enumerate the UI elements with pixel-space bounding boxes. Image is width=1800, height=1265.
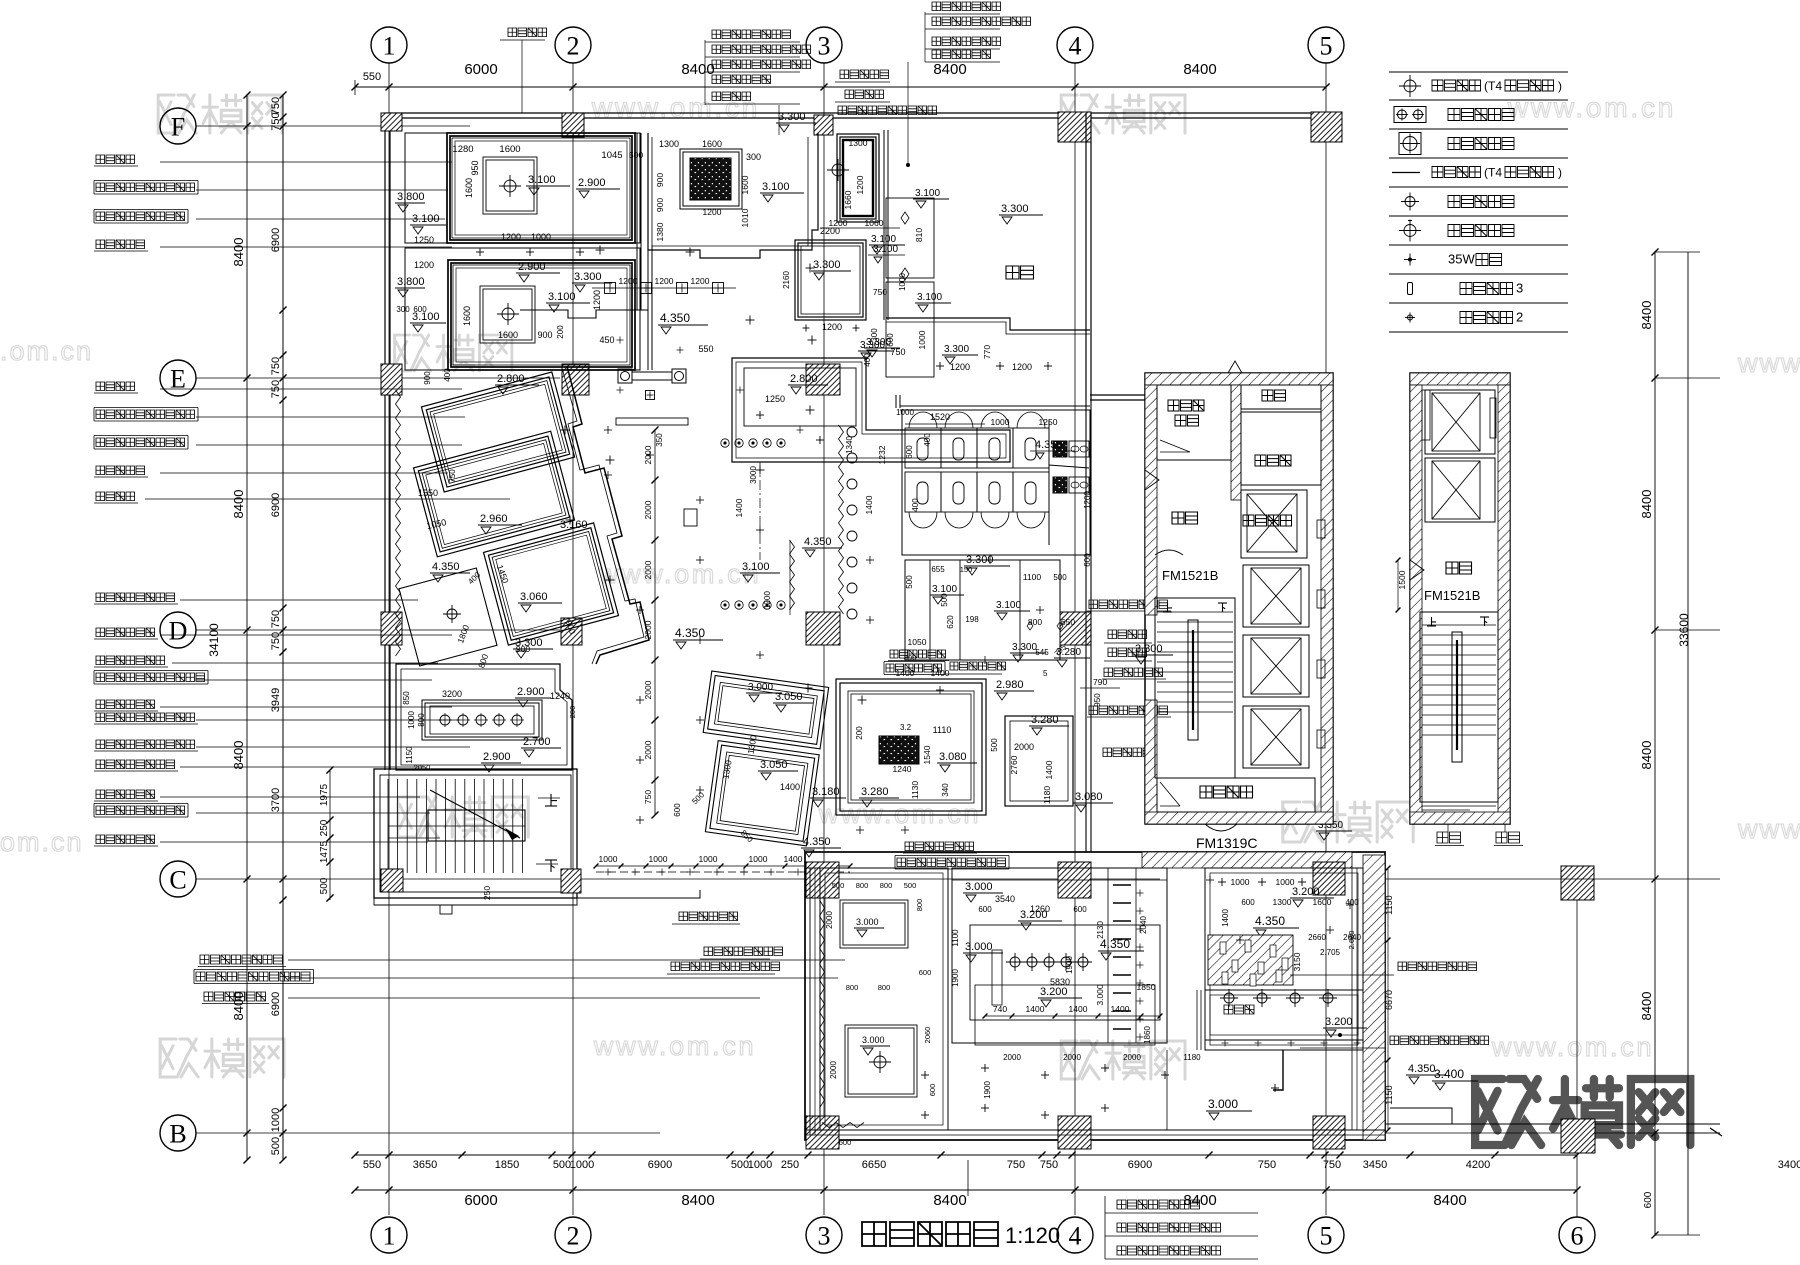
svg-text:600: 600: [905, 445, 914, 459]
svg-text:6000: 6000: [464, 61, 497, 78]
svg-text:1400: 1400: [1221, 909, 1230, 927]
svg-text:770: 770: [982, 345, 992, 359]
svg-text:3.160: 3.160: [560, 519, 588, 531]
svg-text:6: 6: [1571, 1221, 1584, 1250]
svg-text:150: 150: [960, 565, 973, 574]
svg-text:2000: 2000: [1123, 1053, 1141, 1062]
svg-text:200: 200: [855, 726, 864, 740]
svg-text:400: 400: [443, 368, 452, 382]
svg-text:3.000: 3.000: [965, 941, 993, 953]
svg-text:8400: 8400: [933, 1192, 966, 1209]
svg-text:1:120: 1:120: [1005, 1223, 1060, 1248]
svg-text:1400: 1400: [784, 854, 803, 864]
svg-text:4.350: 4.350: [1255, 914, 1285, 928]
svg-text:2.900: 2.900: [483, 751, 511, 763]
svg-text:1200: 1200: [703, 207, 722, 217]
svg-text:3.000: 3.000: [965, 881, 993, 893]
svg-text:790: 790: [1093, 677, 1107, 687]
svg-text:1900: 1900: [983, 1081, 992, 1099]
svg-text:2760: 2760: [1009, 755, 1019, 774]
svg-text:650: 650: [1061, 617, 1075, 627]
svg-text:2.700: 2.700: [523, 736, 551, 748]
svg-text:800: 800: [878, 983, 891, 992]
svg-text:FM1521B: FM1521B: [1424, 588, 1480, 603]
svg-text:www.om.cn: www.om.cn: [818, 799, 981, 829]
svg-text:550: 550: [363, 71, 381, 83]
svg-text:2: 2: [567, 1221, 580, 1250]
svg-text:3200: 3200: [442, 689, 462, 699]
svg-text:500: 500: [1053, 573, 1067, 582]
svg-text:750: 750: [1258, 1159, 1276, 1171]
svg-text:3.100: 3.100: [548, 291, 576, 303]
svg-text:350: 350: [655, 433, 664, 447]
svg-text:1860: 1860: [1143, 1026, 1152, 1044]
svg-text:1400: 1400: [1069, 1004, 1088, 1014]
svg-text:1100: 1100: [951, 929, 960, 947]
svg-text:8400: 8400: [1639, 992, 1654, 1021]
svg-text:1400: 1400: [1026, 1004, 1045, 1014]
svg-text:900: 900: [423, 371, 432, 385]
svg-text:1200: 1200: [1012, 362, 1032, 372]
svg-text:1000: 1000: [1231, 877, 1250, 887]
svg-text:(T4: (T4: [1484, 79, 1502, 93]
svg-text:600: 600: [928, 1084, 937, 1097]
svg-text:8400: 8400: [1433, 1192, 1466, 1209]
svg-text:3.280: 3.280: [861, 786, 889, 798]
svg-text:1340: 1340: [845, 436, 854, 454]
svg-text:2000: 2000: [829, 1061, 838, 1079]
svg-text:8400: 8400: [231, 238, 246, 267]
svg-text:750: 750: [1007, 1159, 1025, 1171]
svg-text:3.080: 3.080: [1075, 791, 1103, 803]
svg-text:1130: 1130: [910, 781, 920, 800]
svg-text:3.100: 3.100: [762, 181, 790, 193]
svg-text:1400: 1400: [1044, 760, 1054, 779]
svg-text:8400: 8400: [231, 992, 246, 1021]
svg-text:2000: 2000: [643, 500, 653, 519]
svg-text:2.960: 2.960: [480, 513, 508, 525]
svg-text:4.350: 4.350: [660, 311, 690, 325]
svg-text:3.060: 3.060: [520, 591, 548, 603]
svg-text:850: 850: [402, 691, 411, 705]
svg-text:1200: 1200: [655, 276, 674, 286]
svg-text:3.000: 3.000: [856, 917, 879, 927]
svg-text:810: 810: [914, 228, 924, 242]
svg-text:6000: 6000: [464, 1192, 497, 1209]
svg-text:500: 500: [553, 1159, 571, 1171]
svg-text:1400: 1400: [931, 668, 950, 678]
svg-text:750: 750: [643, 790, 653, 804]
svg-text:6900: 6900: [270, 992, 282, 1016]
svg-text:600: 600: [919, 968, 932, 977]
svg-text:1000: 1000: [699, 854, 718, 864]
svg-text:1150: 1150: [405, 746, 414, 764]
svg-text:400: 400: [923, 433, 932, 447]
svg-text:950: 950: [470, 160, 480, 175]
svg-text:750: 750: [270, 610, 282, 628]
svg-text:1200: 1200: [950, 362, 970, 372]
svg-text:1550: 1550: [418, 488, 438, 498]
svg-text:1500: 1500: [1397, 570, 1407, 589]
svg-text:200: 200: [568, 706, 577, 719]
svg-text:500: 500: [990, 738, 999, 752]
svg-text:1000: 1000: [896, 408, 914, 417]
svg-text:3.300: 3.300: [515, 637, 543, 649]
svg-text:F: F: [171, 112, 185, 141]
svg-text:4.350: 4.350: [432, 561, 460, 573]
svg-text:3.300: 3.300: [1001, 203, 1029, 215]
svg-text:1200: 1200: [763, 591, 772, 609]
svg-text:3.300: 3.300: [778, 111, 806, 123]
svg-text:2000: 2000: [643, 680, 653, 699]
svg-text:om.cn: om.cn: [0, 827, 84, 857]
svg-text:3.050: 3.050: [760, 759, 788, 771]
svg-text:(T4: (T4: [1484, 166, 1502, 180]
svg-text:3.080: 3.080: [939, 751, 967, 763]
svg-text:3.300: 3.300: [1135, 643, 1163, 655]
svg-text:3.200: 3.200: [1040, 986, 1068, 998]
svg-text:2000: 2000: [1063, 1053, 1081, 1062]
svg-text:1240: 1240: [893, 764, 912, 774]
svg-text:6900: 6900: [648, 1159, 672, 1171]
svg-text:6650: 6650: [862, 1159, 886, 1171]
svg-text:3.100: 3.100: [915, 188, 940, 199]
svg-text:750: 750: [1323, 1159, 1341, 1171]
svg-text:3: 3: [818, 1221, 831, 1250]
svg-text:500: 500: [905, 575, 914, 589]
svg-text:2.900: 2.900: [578, 177, 606, 189]
svg-text:1200: 1200: [855, 175, 865, 194]
svg-text:3.200: 3.200: [1325, 1016, 1353, 1028]
svg-text:1060: 1060: [865, 218, 884, 228]
svg-text:5: 5: [1043, 669, 1048, 678]
svg-text:1850: 1850: [495, 1159, 519, 1171]
svg-text:2: 2: [1516, 310, 1523, 325]
svg-text:4.350: 4.350: [1035, 439, 1063, 451]
svg-text:B: B: [169, 1119, 186, 1148]
svg-text:1000: 1000: [991, 417, 1010, 427]
svg-text:1600: 1600: [702, 139, 722, 149]
svg-text:198: 198: [965, 615, 979, 624]
svg-text:1300: 1300: [1273, 897, 1292, 907]
svg-text:3.180: 3.180: [812, 786, 840, 798]
svg-text:1380: 1380: [655, 222, 665, 241]
svg-text:C: C: [169, 865, 186, 894]
svg-text:2.900: 2.900: [517, 686, 545, 698]
svg-text:5: 5: [1320, 1221, 1333, 1250]
svg-text:950: 950: [1093, 693, 1102, 707]
svg-text:1200: 1200: [592, 290, 602, 310]
svg-text:1045: 1045: [601, 150, 622, 161]
svg-text:400: 400: [911, 498, 920, 512]
svg-text:2000: 2000: [1014, 742, 1034, 752]
svg-text:1540: 1540: [922, 745, 932, 764]
svg-text:1250: 1250: [414, 235, 434, 245]
svg-text:2200: 2200: [820, 226, 840, 236]
svg-text:750: 750: [270, 632, 282, 650]
svg-text:8400: 8400: [231, 490, 246, 519]
svg-text:4200: 4200: [1466, 1159, 1490, 1171]
svg-text:500: 500: [319, 877, 330, 894]
svg-text:3.100: 3.100: [528, 174, 556, 186]
svg-text:1400: 1400: [1111, 1004, 1130, 1014]
svg-text:1050: 1050: [908, 637, 927, 647]
svg-text:1975: 1975: [319, 783, 330, 806]
svg-text:750: 750: [1040, 1159, 1058, 1171]
svg-text:3.300: 3.300: [944, 344, 969, 355]
svg-text:2160: 2160: [782, 271, 791, 289]
svg-text:750: 750: [890, 347, 905, 357]
svg-text:2050: 2050: [414, 763, 431, 772]
svg-text:3.400: 3.400: [1434, 1067, 1464, 1081]
svg-text:2000: 2000: [1003, 1053, 1021, 1062]
svg-text:5: 5: [1320, 31, 1333, 60]
svg-text:800: 800: [856, 881, 869, 890]
svg-text:600: 600: [413, 305, 427, 314]
svg-text:3.300: 3.300: [1012, 642, 1037, 653]
svg-text:2.680: 2.680: [1347, 931, 1356, 950]
svg-text:3.100: 3.100: [742, 561, 770, 573]
svg-text:4.350: 4.350: [1408, 1063, 1436, 1075]
svg-text:250: 250: [781, 1159, 799, 1171]
svg-text:1110: 1110: [933, 725, 952, 735]
svg-text:1180: 1180: [1183, 1053, 1201, 1062]
svg-text:2130: 2130: [1096, 921, 1105, 939]
svg-text:250: 250: [482, 886, 492, 900]
svg-text:www.om.cn: www.om.cn: [593, 1031, 756, 1061]
svg-text:4: 4: [1069, 31, 1082, 60]
svg-text:FM1521B: FM1521B: [1162, 568, 1218, 583]
svg-text:4.350: 4.350: [675, 626, 705, 640]
svg-text:1850: 1850: [1137, 982, 1156, 992]
svg-text:3.800: 3.800: [397, 191, 425, 203]
svg-text:200: 200: [556, 325, 565, 339]
svg-text:6900: 6900: [270, 493, 282, 517]
svg-text:www.: www.: [1737, 814, 1800, 844]
svg-text:1900: 1900: [1065, 956, 1074, 974]
svg-text:3150: 3150: [1292, 952, 1302, 971]
svg-text:3.000: 3.000: [862, 1035, 885, 1045]
svg-text:1100: 1100: [1023, 572, 1042, 582]
svg-text:1000: 1000: [570, 1159, 594, 1171]
svg-text:1010: 1010: [740, 208, 750, 227]
svg-text:300: 300: [396, 305, 410, 314]
svg-text:1200: 1200: [619, 276, 638, 286]
svg-text:1000: 1000: [531, 232, 551, 242]
svg-text:500: 500: [270, 1137, 282, 1155]
svg-text:3.100: 3.100: [996, 600, 1021, 611]
svg-text:2060: 2060: [923, 1027, 932, 1044]
svg-text:1150: 1150: [1384, 895, 1394, 914]
svg-text:1600: 1600: [462, 306, 472, 326]
svg-text:6900: 6900: [270, 228, 282, 252]
svg-text:1200: 1200: [501, 232, 521, 242]
svg-text:FM1319C: FM1319C: [1196, 835, 1257, 851]
svg-text:1000: 1000: [649, 854, 668, 864]
svg-text:3400: 3400: [1778, 1159, 1800, 1171]
svg-text:550: 550: [363, 1159, 381, 1171]
svg-text:3.000: 3.000: [748, 682, 773, 693]
svg-text:1300: 1300: [849, 138, 868, 148]
svg-text:800: 800: [915, 899, 924, 912]
svg-text:500: 500: [904, 881, 917, 890]
svg-text:600: 600: [1241, 898, 1255, 907]
svg-text:900: 900: [537, 330, 552, 340]
svg-text:1000: 1000: [898, 273, 907, 291]
svg-text:3: 3: [818, 31, 831, 60]
svg-text:3.300: 3.300: [574, 271, 602, 283]
svg-text:1600: 1600: [1313, 897, 1332, 907]
svg-text:800: 800: [880, 881, 893, 890]
svg-text:300: 300: [746, 152, 761, 162]
svg-text:8400: 8400: [1183, 1192, 1216, 1209]
svg-text:3650: 3650: [413, 1159, 437, 1171]
svg-text:1200: 1200: [822, 322, 842, 332]
svg-text:1180: 1180: [1042, 786, 1052, 805]
svg-text:1: 1: [383, 31, 396, 60]
svg-text:900: 900: [655, 173, 665, 187]
svg-text:550: 550: [698, 344, 713, 354]
svg-text:600: 600: [1083, 553, 1092, 567]
svg-text:8400: 8400: [933, 61, 966, 78]
svg-text:500: 500: [832, 881, 845, 890]
svg-text:2.800: 2.800: [790, 373, 818, 385]
svg-text:3.000: 3.000: [1208, 1097, 1238, 1111]
svg-text:600: 600: [1643, 1191, 1654, 1208]
svg-text:4.350: 4.350: [804, 536, 832, 548]
svg-text:3.100: 3.100: [873, 244, 898, 255]
svg-text:www.om.cn: www.om.cn: [1491, 1032, 1654, 1062]
svg-text:1: 1: [383, 1221, 396, 1250]
svg-text:6900: 6900: [1128, 1159, 1152, 1171]
svg-text:620: 620: [946, 615, 955, 629]
svg-text:1660: 1660: [843, 190, 853, 209]
svg-text:1600: 1600: [464, 178, 474, 198]
svg-text:2000: 2000: [643, 560, 653, 579]
svg-text:1400: 1400: [864, 495, 874, 514]
svg-text:1280: 1280: [452, 144, 473, 155]
svg-text:1240: 1240: [550, 691, 570, 701]
svg-text:1600: 1600: [499, 144, 520, 155]
svg-text:3700: 3700: [270, 788, 282, 812]
svg-text:1600: 1600: [498, 330, 518, 340]
svg-text:3000: 3000: [749, 466, 758, 484]
svg-text:1000: 1000: [599, 854, 618, 864]
svg-text:2: 2: [567, 31, 580, 60]
svg-text:1232: 1232: [877, 445, 887, 464]
svg-text:1150: 1150: [1384, 1085, 1394, 1104]
svg-text:3.800: 3.800: [397, 276, 425, 288]
svg-text:3.100: 3.100: [917, 292, 942, 303]
svg-text:35W: 35W: [1448, 252, 1475, 267]
svg-text:2.900: 2.900: [518, 261, 546, 273]
svg-text:8400: 8400: [1639, 301, 1654, 330]
svg-text:600: 600: [978, 905, 992, 914]
svg-text:3.000: 3.000: [1095, 984, 1105, 1006]
svg-text:1000: 1000: [749, 854, 768, 864]
svg-text:3450: 3450: [1363, 1159, 1387, 1171]
svg-text:1475: 1475: [319, 840, 330, 863]
svg-text:340: 340: [941, 783, 950, 797]
svg-text:8400: 8400: [231, 741, 246, 770]
svg-text:2.705: 2.705: [1320, 948, 1341, 957]
svg-text:1400: 1400: [734, 498, 744, 517]
svg-text:1300: 1300: [659, 139, 679, 149]
svg-text:3.300: 3.300: [866, 337, 891, 348]
svg-text:8400: 8400: [1639, 741, 1654, 770]
svg-text:655: 655: [931, 565, 945, 574]
svg-text:2.800: 2.800: [497, 373, 525, 385]
svg-text:545: 545: [1035, 648, 1049, 657]
svg-text:3: 3: [1516, 281, 1523, 296]
svg-text:800: 800: [846, 983, 859, 992]
svg-text:2000: 2000: [825, 911, 834, 929]
svg-text:750: 750: [270, 357, 282, 375]
svg-text:1000: 1000: [917, 330, 927, 349]
svg-text:3.280: 3.280: [1031, 714, 1059, 726]
svg-text:): ): [1558, 166, 1562, 180]
svg-text:450: 450: [599, 335, 614, 345]
svg-text:2000: 2000: [643, 740, 653, 759]
svg-text:): ): [1558, 79, 1562, 93]
svg-text:900: 900: [655, 198, 665, 212]
svg-text:500: 500: [731, 1159, 749, 1171]
svg-text:740: 740: [993, 1004, 1007, 1014]
svg-text:4: 4: [1069, 1221, 1082, 1250]
svg-text:3.300: 3.300: [813, 259, 841, 271]
svg-text:600: 600: [1073, 905, 1087, 914]
svg-text:1200: 1200: [414, 260, 434, 270]
svg-text:1250: 1250: [765, 394, 785, 404]
svg-text:500: 500: [940, 593, 949, 607]
svg-text:3949: 3949: [270, 688, 282, 712]
svg-text:750: 750: [448, 469, 457, 483]
svg-text:.om.cn: .om.cn: [0, 336, 93, 366]
svg-text:8400: 8400: [681, 1192, 714, 1209]
svg-text:8400: 8400: [681, 61, 714, 78]
svg-text:1400: 1400: [896, 668, 915, 678]
svg-text:D: D: [169, 616, 188, 645]
svg-text:1900: 1900: [951, 969, 960, 987]
svg-text:750: 750: [270, 112, 282, 130]
svg-text:6670: 6670: [1384, 990, 1394, 1010]
svg-text:1600: 1600: [740, 175, 750, 194]
svg-text:34100: 34100: [207, 623, 221, 657]
svg-text:2040: 2040: [1139, 916, 1148, 934]
svg-text:www.om.cn: www.om.cn: [1507, 92, 1676, 123]
svg-text:3540: 3540: [995, 894, 1015, 904]
svg-text:1200: 1200: [691, 276, 710, 286]
svg-text:www.: www.: [1737, 348, 1800, 378]
svg-text:1250: 1250: [1039, 417, 1058, 427]
svg-text:1000: 1000: [270, 1108, 282, 1132]
svg-text:2660: 2660: [1308, 933, 1326, 942]
svg-text:600: 600: [839, 1138, 852, 1147]
svg-text:1520: 1520: [930, 412, 950, 422]
svg-text:3.2: 3.2: [900, 723, 912, 732]
svg-text:1000: 1000: [748, 1159, 772, 1171]
svg-text:1200: 1200: [1083, 491, 1092, 509]
svg-text:750: 750: [873, 287, 887, 297]
svg-text:600: 600: [673, 803, 682, 817]
svg-text:3.050: 3.050: [775, 691, 803, 703]
svg-text:3.200: 3.200: [1020, 909, 1048, 921]
svg-text:2.980: 2.980: [996, 679, 1024, 691]
svg-text:8400: 8400: [1183, 61, 1216, 78]
svg-text:1400: 1400: [780, 782, 800, 792]
svg-text:8400: 8400: [1639, 490, 1654, 519]
